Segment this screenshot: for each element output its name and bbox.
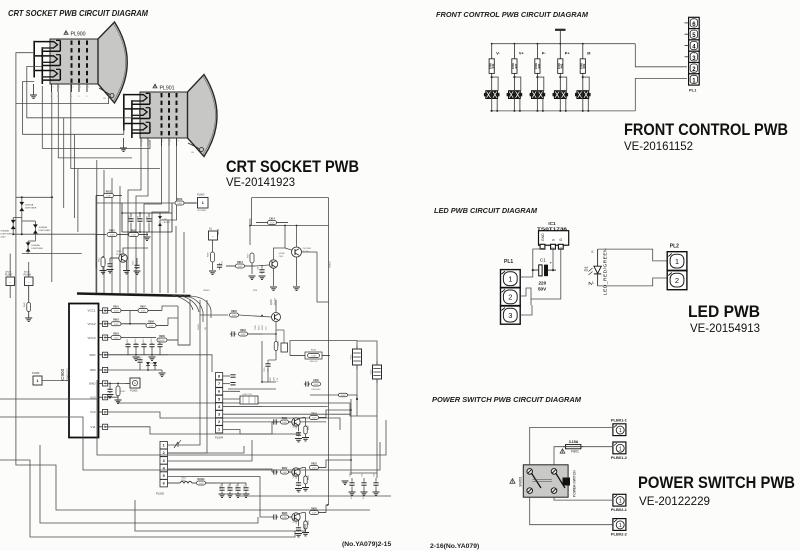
svg-text:C1: C1 <box>540 258 546 263</box>
svg-text:L906: L906 <box>138 216 140 220</box>
capacitor input Q904 <box>272 469 278 474</box>
svg-text:R924: R924 <box>311 412 317 415</box>
svg-text:100R: 100R <box>341 395 346 397</box>
capacitors C916-C918 <box>349 472 380 495</box>
wire <box>51 92 53 282</box>
wire mid <box>167 220 169 293</box>
wire loop left vertical <box>251 198 253 226</box>
PL900 pin stubs <box>49 84 87 98</box>
svg-text:GND: GND <box>89 382 97 386</box>
wire Q902 collector up <box>274 226 286 260</box>
svg-text:POWER SWITCH PWB CIRCUIT DIAGR: POWER SWITCH PWB CIRCUIT DIAGRAM <box>432 395 582 404</box>
svg-text:V902: V902 <box>371 369 373 375</box>
svg-text:100R: 100R <box>282 422 287 424</box>
connector PL904 <box>215 373 224 440</box>
wire Q902 base <box>255 265 269 266</box>
wire sg bottom bus <box>22 253 82 255</box>
net label GND1 <box>198 323 200 330</box>
wire long rail x328 <box>328 198 330 505</box>
capacitor C907 <box>137 357 143 370</box>
wire staircase 4 <box>40 445 258 523</box>
power wire fuse <box>554 447 566 465</box>
wire staircase 2 <box>0 417 380 470</box>
wire Q901 collector <box>296 226 298 248</box>
svg-text:C943: C943 <box>228 485 230 489</box>
wire staircase 1 <box>0 399 386 455</box>
pushbutton switch SW3 <box>530 91 546 99</box>
wire PL906 to IC900 <box>42 380 69 382</box>
wire <box>376 380 378 478</box>
front control right riser bottom <box>635 79 687 111</box>
switch SW4 leads <box>559 76 567 112</box>
wire <box>28 240 35 242</box>
svg-text:R22: R22 <box>514 63 518 68</box>
label PL901 <box>160 86 175 92</box>
svg-text:V12: V12 <box>90 410 96 414</box>
connector PL907 <box>5 271 15 286</box>
svg-text:Q905: Q905 <box>293 517 295 523</box>
resistor R917 vertical <box>248 245 255 274</box>
spark gap SG901A <box>19 202 36 211</box>
svg-text:2: 2 <box>218 420 220 424</box>
wire from PL901 pins <box>128 146 141 293</box>
svg-text:R52: R52 <box>582 63 586 68</box>
svg-text:PLB: PLB <box>253 290 258 292</box>
label PL1 front <box>689 88 697 93</box>
wire pl904 pin8 row <box>228 388 276 390</box>
svg-text:D1: D1 <box>584 265 589 271</box>
component box at pin5-6 <box>240 394 258 404</box>
svg-text:8: 8 <box>218 374 220 378</box>
wire to R926 <box>200 314 228 316</box>
svg-text:7: 7 <box>218 382 220 386</box>
wire Q900 collector <box>123 248 148 254</box>
capacitor under Q903 <box>295 425 302 442</box>
wire bottom long 3 <box>55 464 57 466</box>
transistor Q906 <box>271 297 281 322</box>
connector PL906 <box>32 371 42 385</box>
svg-text:C930: C930 <box>313 380 319 382</box>
transistor Q905 <box>292 513 300 524</box>
bundle labels <box>203 290 258 292</box>
wire bottom across <box>168 440 252 461</box>
svg-text:R927: R927 <box>308 425 310 430</box>
resistor R913 <box>226 262 255 268</box>
svg-text:VCC1: VCC1 <box>87 309 95 313</box>
wire down org <box>95 268 97 293</box>
PL900 pin tiny labels <box>53 87 90 89</box>
svg-text:VIDEO: VIDEO <box>330 261 332 268</box>
page number (No.YA079)2-15 <box>342 541 391 548</box>
svg-text:2SC2688: 2SC2688 <box>303 248 312 250</box>
label PL1 led <box>504 259 513 265</box>
capacitor C915 <box>258 265 266 279</box>
warning triangle PL901 <box>153 84 157 88</box>
labels 0.01U <box>351 493 365 499</box>
svg-text:FRONT CONTROL PWB: FRONT CONTROL PWB <box>624 120 788 139</box>
svg-text:1: 1 <box>619 428 622 434</box>
svg-text:PL908: PL908 <box>24 274 32 277</box>
junction front P+ <box>559 43 561 45</box>
label VE-20122229 <box>639 494 710 508</box>
svg-text:1: 1 <box>142 141 143 143</box>
resistor R942A <box>192 478 216 485</box>
lamp D1 HL900 <box>209 228 221 241</box>
capacitors C942-C945 <box>216 483 250 497</box>
svg-text:PLB01-1: PLB01-1 <box>611 418 628 423</box>
transistor Q904 <box>292 468 300 479</box>
wire <box>13 217 22 219</box>
junction front V- <box>491 43 493 45</box>
front control bottom bus <box>490 110 635 112</box>
svg-text:R917: R917 <box>248 253 250 258</box>
wire Q906 collector up <box>275 300 277 313</box>
switch SW1 leads <box>491 76 499 112</box>
power wire bottom-left <box>530 497 613 525</box>
wire top rail <box>250 225 329 227</box>
wire stage2 out <box>326 460 351 468</box>
svg-text:PL1: PL1 <box>504 259 513 265</box>
svg-text:CATNI24: CATNI24 <box>163 221 171 224</box>
svg-text:VCC2: VCC2 <box>87 322 95 326</box>
svg-text:R902: R902 <box>113 320 119 322</box>
svg-text:1: 1 <box>163 444 165 448</box>
transistor Q900 <box>110 251 127 262</box>
svg-text:C945: C945 <box>244 485 246 489</box>
capacitor C906 <box>105 258 114 273</box>
connector PLB02-2 <box>611 519 628 537</box>
wire <box>95 196 97 269</box>
wire staircase 5 <box>0 460 295 537</box>
resistor R925 <box>299 463 327 469</box>
wire <box>12 218 14 235</box>
label button M <box>587 52 590 56</box>
wire <box>350 399 352 475</box>
power wire bottom-right <box>554 497 613 500</box>
wire top net <box>96 202 200 204</box>
svg-text:1: 1 <box>163 141 164 143</box>
svg-text:+: + <box>550 261 553 266</box>
label LED_RED/GREEN <box>603 248 609 295</box>
resistor R926 <box>230 311 239 317</box>
capacitors C901-C905 on VDD <box>104 338 168 355</box>
svg-text:VCC3: VCC3 <box>87 336 95 340</box>
wire staircase 7 <box>96 380 98 399</box>
svg-text:DISPOSER: DISPOSER <box>31 248 43 250</box>
svg-text:PLB02-2: PLB02-2 <box>611 531 628 536</box>
wire long drop <box>111 178 113 293</box>
resistor R921 <box>281 418 292 424</box>
wire horizontal d5 <box>223 406 328 408</box>
wire <box>27 241 29 254</box>
wire PL904 pin2 <box>223 421 326 423</box>
junction bottom <box>327 398 358 506</box>
svg-text:P+: P+ <box>565 52 571 56</box>
svg-text:C918: C918 <box>374 472 376 477</box>
capacitor cluster C909-C911 <box>121 203 172 233</box>
wire <box>71 84 160 169</box>
IC1 pins <box>540 233 563 249</box>
wire loop rail y197 <box>252 197 329 199</box>
wire VCC3 riser <box>178 306 190 345</box>
wire net to PL904 <box>178 300 190 345</box>
led wire d1 top <box>598 249 668 261</box>
front control top bus <box>492 43 635 45</box>
svg-text:1: 1 <box>619 499 622 505</box>
svg-text:6: 6 <box>218 390 220 394</box>
wire <box>356 365 358 416</box>
wire V13 route <box>104 397 377 416</box>
pushbutton switch SW4 <box>553 91 569 99</box>
wire long drop <box>103 170 105 293</box>
svg-text:6: 6 <box>163 482 165 486</box>
svg-text:VDD: VDD <box>89 353 96 357</box>
transistor Q902 <box>269 253 285 268</box>
svg-text:4.7U: 4.7U <box>277 377 279 382</box>
svg-text:100R: 100R <box>149 326 154 328</box>
junction Q906 <box>261 315 277 335</box>
ground near PL900 <box>30 84 37 98</box>
title POWER SWITCH PWB CIRCUIT DIAGRAM <box>432 395 582 404</box>
junction <box>12 233 23 235</box>
wire long drop <box>119 186 121 293</box>
capacitor C912 <box>133 258 141 274</box>
front control right riser top <box>635 44 687 67</box>
wire V11 route <box>104 427 300 434</box>
svg-text:100R: 100R <box>241 334 246 336</box>
svg-text:PL2: PL2 <box>670 244 679 250</box>
wire <box>58 92 132 158</box>
label VE-20141923 <box>226 175 295 189</box>
svg-text:PL906: PL906 <box>32 371 40 375</box>
svg-text:R32: R32 <box>537 63 541 68</box>
svg-text:100R: 100R <box>106 196 111 198</box>
wire long vertical B <box>206 300 208 446</box>
antenna mark near PL902 <box>174 440 181 448</box>
svg-text:VR: VR <box>205 327 207 330</box>
svg-text:PLB02-1: PLB02-1 <box>611 507 628 512</box>
svg-text:100R: 100R <box>114 338 119 340</box>
label button P- <box>542 52 547 56</box>
svg-text:GND1: GND1 <box>198 323 200 330</box>
title FRONT CONTROL PWB CIRCUIT DIAGRAM <box>436 10 589 19</box>
labels R935 C922 <box>270 376 279 382</box>
wire R933 junction <box>262 333 276 335</box>
resistor R5 <box>580 44 587 91</box>
wire from PL900 gun to PL901 <box>16 53 109 104</box>
CRT socket PL900 bell <box>50 22 127 103</box>
pushbutton switch SW1 <box>484 91 500 99</box>
svg-text:100R: 100R <box>270 223 275 225</box>
wire stage1 out <box>326 410 351 418</box>
thick wire bundle bus <box>77 294 191 297</box>
wire <box>21 197 23 234</box>
resistor R905 vertical <box>115 383 127 403</box>
wire PL904 pin4 long <box>223 406 262 408</box>
capacitor at PL904 pin7 <box>223 383 236 385</box>
wire to stage1 <box>240 422 272 434</box>
pushbutton switch SW5 <box>575 91 591 99</box>
IC1 labels <box>537 221 567 232</box>
wire VCC1 net <box>162 306 178 311</box>
resistor R909 <box>157 336 178 342</box>
component box right of Q906 <box>276 330 288 352</box>
resistor R901 <box>104 306 130 312</box>
svg-text:1: 1 <box>178 141 179 143</box>
PL901 pin tiny labels <box>142 141 179 143</box>
wire PL907 stub <box>9 286 11 298</box>
connector PL2 led <box>667 252 687 290</box>
label SG904A <box>1 230 13 239</box>
junction dots IC nets <box>109 354 153 384</box>
svg-text:VE-20122229: VE-20122229 <box>639 494 710 508</box>
svg-text:IC1: IC1 <box>548 221 556 226</box>
ground bottom rails <box>342 481 349 484</box>
label button V- <box>496 52 500 56</box>
CRT socket PL901 guns <box>123 93 150 138</box>
svg-text:5: 5 <box>163 474 165 478</box>
led wire c1 left <box>533 269 539 271</box>
wire stage3 out <box>326 505 328 513</box>
op-amp IC1 body <box>539 231 569 246</box>
ground Q900 emitter <box>123 261 130 274</box>
wire PL904 pin5 <box>223 398 240 400</box>
resistor R910 <box>96 230 117 236</box>
ground amp cluster 2 <box>270 268 277 290</box>
svg-text:1: 1 <box>508 275 512 284</box>
wire out down <box>316 252 318 302</box>
wire pl902 pin2 <box>167 446 207 453</box>
label LED PWB <box>688 302 760 321</box>
label POWER-SWITCH <box>573 470 577 497</box>
label PL2 <box>670 244 679 250</box>
svg-text:TDA6107Q: TDA6107Q <box>65 369 69 382</box>
resistor R916 <box>175 199 196 205</box>
junction <box>129 323 131 325</box>
resistor C930 row <box>304 380 321 391</box>
svg-text:VE-20161152: VE-20161152 <box>624 139 693 153</box>
op-amp IC900 body <box>60 304 99 438</box>
svg-text:100R: 100R <box>312 468 317 470</box>
svg-text:2SC945: 2SC945 <box>116 254 124 256</box>
capacitor C913 <box>217 260 224 268</box>
svg-text:2: 2 <box>675 276 679 285</box>
wire IDM <box>104 369 148 371</box>
connector PL902 <box>156 442 167 496</box>
capacitor under Q904 <box>295 475 302 492</box>
component V901 <box>351 345 362 369</box>
warning triangle SW801 <box>510 479 515 484</box>
svg-text:100R: 100R <box>177 203 182 205</box>
svg-text:100R: 100R <box>238 266 243 268</box>
svg-text:~: ~ <box>9 281 11 285</box>
label VE-20161152 <box>624 139 693 153</box>
connector PLB01-1 <box>611 418 628 436</box>
svg-text:POWER-SWITCH: POWER-SWITCH <box>573 470 577 497</box>
svg-text:C942: C942 <box>220 485 222 489</box>
svg-text:1: 1 <box>619 446 622 452</box>
svg-text:1: 1 <box>218 428 220 432</box>
svg-text:Q906: Q906 <box>271 299 273 305</box>
capacitor input Q903 <box>272 419 278 424</box>
resistor R934 vertical <box>274 340 280 350</box>
resistor R923 <box>281 513 292 519</box>
svg-text:PL903: PL903 <box>197 193 205 197</box>
wire <box>23 82 124 135</box>
svg-text:DISPOSER: DISPOSER <box>25 207 37 209</box>
wire from PL901 pins <box>160 146 177 293</box>
svg-text:POWER SWITCH PWB: POWER SWITCH PWB <box>638 473 795 492</box>
svg-text:100R: 100R <box>199 483 204 485</box>
resistor R903 <box>104 334 156 340</box>
label SW801 <box>519 476 523 487</box>
resistor R908 <box>146 321 168 327</box>
svg-text:100R: 100R <box>282 517 287 519</box>
capacitor C1 <box>533 258 556 292</box>
svg-text:Q9086: Q9086 <box>279 253 286 255</box>
svg-text:100R: 100R <box>312 418 317 420</box>
label button P+ <box>565 52 571 56</box>
title CRT SOCKET PWB CIRCUIT DIAGRAM <box>8 9 148 18</box>
switch SW5 leads <box>582 76 590 112</box>
resistor R926 <box>299 508 327 514</box>
svg-text:FRONT CONTROL PWB CIRCUIT DIAG: FRONT CONTROL PWB CIRCUIT DIAGRAM <box>436 10 589 19</box>
ground amp cluster 3 <box>293 257 300 290</box>
resistor R902 <box>104 320 146 326</box>
junction <box>21 196 53 198</box>
wire mid <box>183 232 185 293</box>
wire <box>77 169 79 233</box>
svg-text:1: 1 <box>170 141 171 143</box>
led wire vo down <box>531 249 561 305</box>
warning triangle fuse <box>560 449 565 453</box>
label VE-20154913 <box>690 321 760 335</box>
wire PL904 pin1 <box>223 430 240 435</box>
wire horizontal d4 <box>310 395 357 399</box>
svg-text:C917: C917 <box>362 472 364 477</box>
svg-text:HL900: HL900 <box>217 228 220 236</box>
svg-text:R913: R913 <box>237 262 243 264</box>
svg-text:2-16(No.YA079): 2-16(No.YA079) <box>430 543 479 550</box>
svg-text:5: 5 <box>218 397 220 401</box>
svg-text:1: 1 <box>59 87 60 89</box>
svg-text:100R: 100R <box>314 384 319 386</box>
svg-text:C911: C911 <box>147 216 149 220</box>
svg-text:100R: 100R <box>312 513 317 515</box>
resistor R922 <box>281 468 292 474</box>
svg-text:3: 3 <box>218 412 220 416</box>
label CRT SOCKET PWB <box>226 157 359 176</box>
svg-text:LED PWB: LED PWB <box>688 302 760 321</box>
wire bottom long 2 <box>238 495 391 497</box>
svg-text:CRT SOCKET PWB: CRT SOCKET PWB <box>226 157 359 176</box>
svg-text:R910: R910 <box>109 230 115 232</box>
wire pl902 pin1 <box>167 440 200 445</box>
resistor R914 top <box>256 217 288 224</box>
wire top to V901 <box>290 341 357 356</box>
led wire pl1-1 up <box>520 249 542 277</box>
svg-text:VE-20154913: VE-20154913 <box>690 321 760 335</box>
title LED PWB CIRCUIT DIAGRAM <box>434 206 538 215</box>
capacitor input R933 <box>230 331 236 336</box>
svg-text:2: 2 <box>508 293 512 302</box>
svg-text:R942A: R942A <box>197 478 204 481</box>
power wire top-left <box>530 427 613 464</box>
svg-text:V901: V901 <box>351 354 353 360</box>
CRT socket PL900 guns <box>33 40 60 84</box>
svg-text:R921: R921 <box>282 418 288 420</box>
led wire d1 bottom <box>598 278 668 286</box>
